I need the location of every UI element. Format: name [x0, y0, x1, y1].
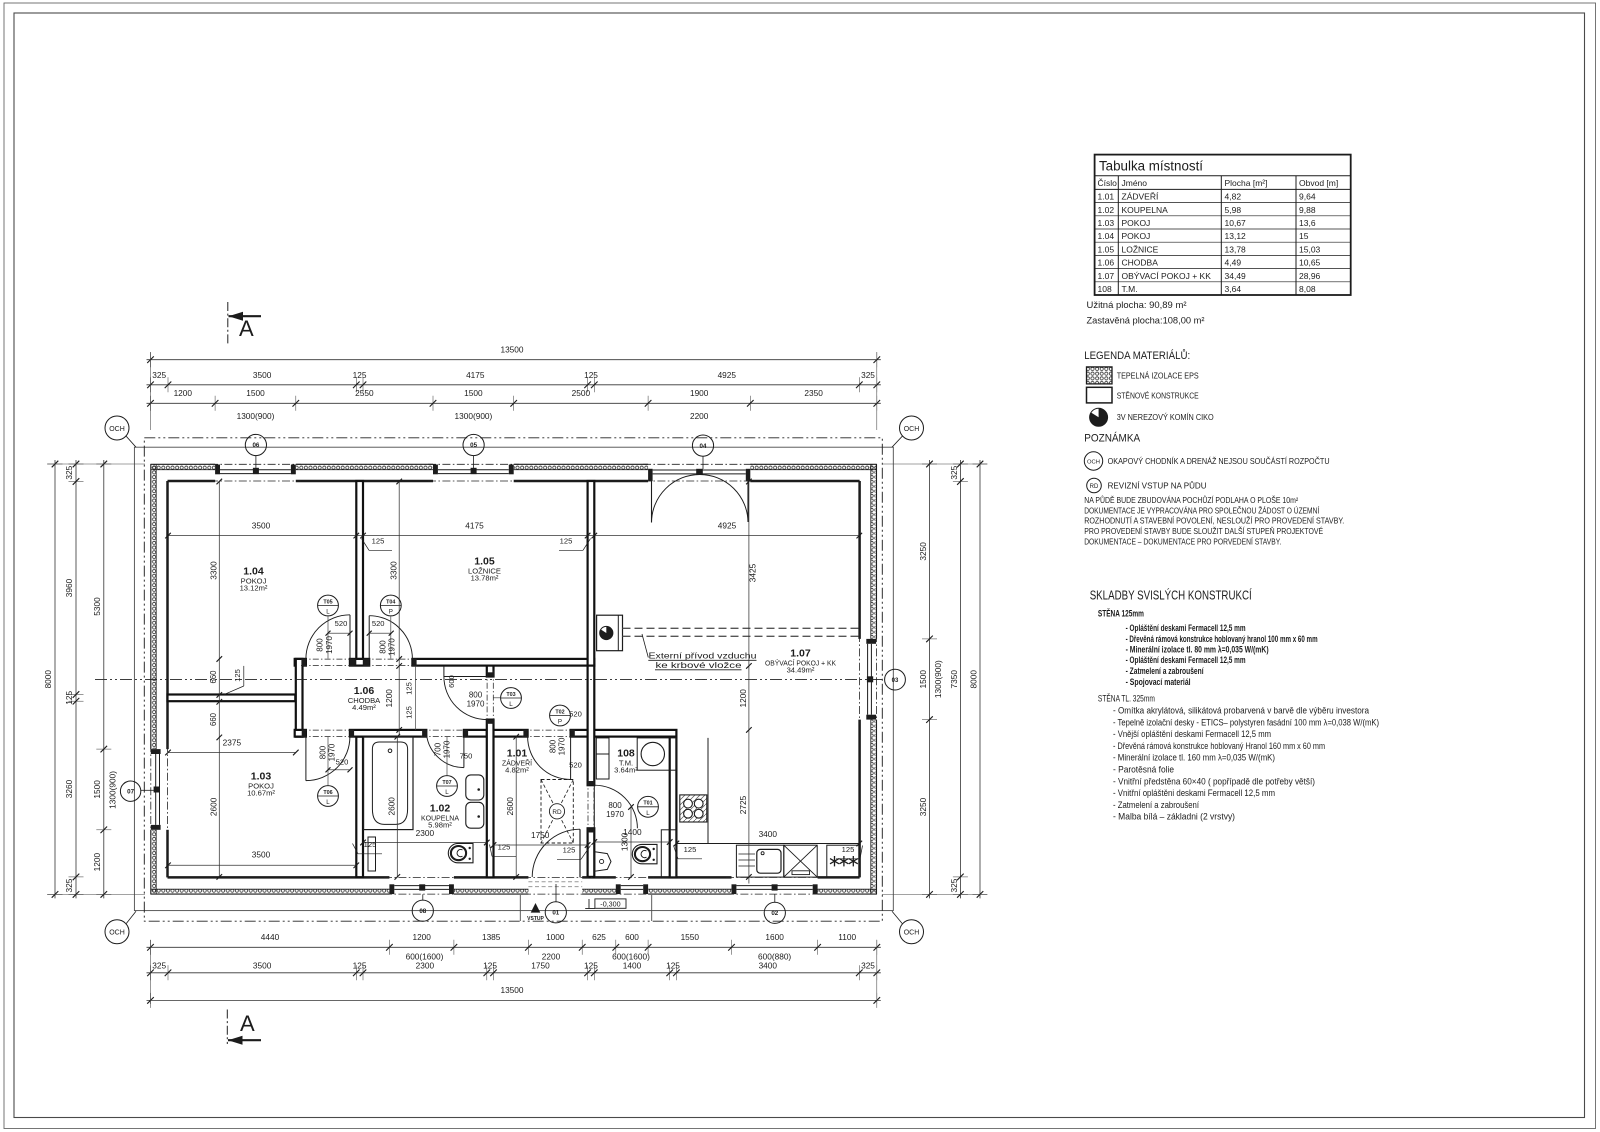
svg-text:- Parotěsná folie: - Parotěsná folie	[1113, 765, 1174, 775]
svg-text:1900: 1900	[690, 388, 709, 398]
svg-text:OBÝVACÍ POKOJ + KK: OBÝVACÍ POKOJ + KK	[1122, 271, 1212, 281]
svg-text:- Dřevěná rámová konstrukce ho: - Dřevěná rámová konstrukce hoblovaný hr…	[1126, 634, 1318, 644]
interior wall corridor bottom between doors	[350, 730, 426, 737]
interior dim 1300 TM vertical	[630, 807, 632, 877]
svg-text:KOUPELNA: KOUPELNA	[1122, 205, 1169, 215]
svg-text:1100: 1100	[838, 932, 856, 942]
OCH circle top-right	[900, 416, 924, 440]
svg-text:STĚNA TL. 325mm: STĚNA TL. 325mm	[1098, 694, 1155, 704]
svg-text:1385: 1385	[482, 932, 501, 942]
interior dim 1750 zadveri	[494, 844, 588, 846]
interior wall V1b between 1.03 and 1.02	[356, 737, 363, 878]
svg-text:1200: 1200	[738, 689, 748, 708]
svg-text:Číslo: Číslo	[1098, 178, 1118, 188]
svg-text:7350: 7350	[949, 670, 959, 689]
svg-text:10.67m²: 10.67m²	[247, 789, 275, 798]
svg-text:2350: 2350	[804, 388, 823, 398]
svg-text:1300: 1300	[619, 832, 629, 851]
svg-text:1200: 1200	[384, 689, 394, 708]
svg-text:- Tepelně izolační desky - ETI: - Tepelně izolační desky - ETICS– polyst…	[1113, 717, 1379, 727]
svg-text:1500: 1500	[246, 388, 265, 398]
svg-text:28,96: 28,96	[1299, 271, 1321, 281]
svg-text:125: 125	[584, 370, 598, 380]
svg-text:800: 800	[378, 640, 387, 654]
svg-text:125: 125	[498, 843, 511, 852]
svg-text:OKAPOVÝ CHODNÍK A DRENÁŽ NEJSO: OKAPOVÝ CHODNÍK A DRENÁŽ NEJSOU SOUČÁSTÍ…	[1108, 456, 1330, 466]
section mark A top	[227, 302, 229, 345]
interior wall V2b zadveri/TM upper part	[588, 666, 595, 786]
dash-dot wall lines across left window	[150, 744, 152, 835]
svg-text:2500: 2500	[572, 388, 591, 398]
svg-text:L: L	[646, 810, 650, 817]
walkway entrance landing edge left	[519, 895, 521, 921]
door zadveri to TM swing arc	[593, 785, 595, 828]
door type circle T01	[638, 796, 659, 817]
svg-text:125: 125	[563, 846, 576, 855]
interior wall corridor left	[296, 659, 303, 737]
interior dim 3400 kitchen (on counter edge)	[674, 841, 680, 847]
axis circle 03 right	[885, 669, 906, 690]
svg-text:DOKUMENTACE JE VYPRACOVÁNA PRO: DOKUMENTACE JE VYPRACOVÁNA PRO SPOLEČNOU…	[1084, 505, 1320, 515]
svg-text:1300(900): 1300(900)	[933, 660, 943, 698]
svg-text:L: L	[445, 789, 449, 796]
left dimension chain 1 (5300/1500/1200)	[103, 460, 105, 898]
svg-text:3400: 3400	[759, 961, 778, 971]
svg-text:325: 325	[152, 370, 166, 380]
svg-text:13.78m²: 13.78m²	[471, 574, 499, 583]
svg-text:1.05: 1.05	[1098, 244, 1115, 254]
svg-text:1970: 1970	[388, 638, 397, 656]
svg-text:VSTUP: VSTUP	[527, 916, 544, 922]
OCH circle bottom-left	[105, 920, 129, 944]
svg-text:3500: 3500	[252, 850, 271, 860]
svg-text:04: 04	[700, 443, 707, 450]
svg-text:- Opláštění deskami Fermacell: - Opláštění deskami Fermacell 12,5 mm	[1126, 623, 1246, 633]
svg-text:10,67: 10,67	[1225, 218, 1247, 228]
svg-text:3300: 3300	[209, 561, 219, 580]
svg-text:1600: 1600	[765, 932, 784, 942]
svg-text:OCH: OCH	[1087, 460, 1100, 466]
svg-text:ZÁDVEŘÍ: ZÁDVEŘÍ	[1122, 192, 1159, 202]
interior wall V2b zadveri/TM lower part	[588, 828, 595, 877]
interior wall corridor bottom left part	[295, 730, 306, 737]
svg-text:3,64: 3,64	[1225, 284, 1242, 294]
bathtub in koupelna	[364, 737, 414, 830]
external air duct label	[642, 634, 648, 658]
svg-text:1500: 1500	[464, 388, 483, 398]
svg-text:L: L	[326, 799, 330, 806]
svg-text:125: 125	[684, 845, 697, 854]
svg-text:RD: RD	[1090, 484, 1099, 490]
toilet koupelna	[448, 843, 473, 862]
svg-text:- Vnitřní opláštěni deskami Fe: - Vnitřní opláštěni deskami Fermacell 12…	[1113, 788, 1275, 798]
note OCH symbol	[1084, 452, 1102, 470]
svg-text:1400: 1400	[623, 961, 642, 971]
svg-text:2600: 2600	[505, 797, 515, 816]
svg-text:13,78: 13,78	[1225, 244, 1247, 254]
axis circle 01 entry	[555, 884, 557, 902]
window W4 in bottom wall (T.M.)	[616, 884, 621, 894]
svg-text:- Opláštění deskami Fermacell: - Opláštění deskami Fermacell 12,5 mm	[1126, 655, 1246, 665]
svg-text:125: 125	[405, 682, 414, 695]
svg-text:3V NEREZOVÝ KOMÍN CIKO: 3V NEREZOVÝ KOMÍN CIKO	[1117, 412, 1214, 422]
svg-text:1.04: 1.04	[1098, 231, 1115, 241]
french door FD in top wall (room 1.07)	[648, 469, 653, 481]
door type circle T03	[501, 688, 522, 709]
svg-text:- Minerální izolace tl. 160 mm: - Minerální izolace tl. 160 mm λ=0,035 W…	[1113, 753, 1275, 763]
svg-text:08: 08	[419, 908, 426, 915]
svg-text:07: 07	[127, 788, 134, 795]
svg-text:ke krbové vložce: ke krbové vložce	[656, 661, 743, 670]
svg-text:1970: 1970	[558, 737, 567, 755]
svg-text:325: 325	[861, 961, 875, 971]
svg-text:SKLADBY SVISLÝCH KONSTRUKCÍ: SKLADBY SVISLÝCH KONSTRUKCÍ	[1090, 588, 1252, 603]
svg-text:A: A	[239, 316, 254, 341]
svg-text:L: L	[509, 701, 513, 708]
svg-text:325: 325	[64, 465, 74, 479]
svg-text:700: 700	[433, 742, 442, 756]
svg-text:2600: 2600	[386, 797, 396, 816]
axis circle 08 with stem	[412, 900, 433, 921]
svg-text:3500: 3500	[253, 961, 272, 971]
svg-text:5,98: 5,98	[1225, 205, 1242, 215]
svg-text:- Spojovací materiál: - Spojovací materiál	[1126, 677, 1191, 687]
interior dim 2600 zadveri vertical	[515, 737, 517, 877]
svg-text:STĚNA 125mm: STĚNA 125mm	[1098, 608, 1144, 619]
door corridor to zadveri swing arc	[570, 737, 572, 780]
chimney block	[597, 615, 623, 651]
kitchen stove with burners	[680, 795, 707, 822]
svg-text:1750: 1750	[531, 830, 550, 840]
svg-text:T03: T03	[506, 692, 515, 698]
left chain corner extension lines	[47, 463, 145, 465]
svg-text:325: 325	[949, 465, 959, 479]
svg-text:P: P	[558, 719, 562, 726]
top dimension chain 2	[147, 384, 881, 386]
svg-text:13,12: 13,12	[1225, 231, 1247, 241]
svg-text:800: 800	[316, 638, 325, 652]
axis circle 05 with stem	[463, 434, 484, 455]
bottom chain corner extension lines	[150, 940, 152, 1004]
top dimension chain 13500	[147, 359, 881, 361]
svg-text:- Zatmelení a zabroušení: - Zatmelení a zabroušení	[1126, 666, 1204, 676]
svg-text:13,6: 13,6	[1299, 218, 1316, 228]
svg-text:660: 660	[209, 670, 218, 684]
svg-text:325: 325	[949, 878, 959, 892]
svg-text:750: 750	[460, 752, 473, 761]
interior wall TM top	[588, 730, 677, 737]
window W3b in bottom wall (koupelna)	[389, 884, 394, 894]
svg-text:Jméno: Jméno	[1122, 178, 1148, 188]
svg-text:108: 108	[1098, 284, 1112, 294]
svg-text:2300: 2300	[416, 828, 435, 838]
svg-text:125: 125	[405, 706, 414, 719]
main horizontal axis dash-dot through plan	[95, 679, 885, 681]
dash-dot wall lines across top openings	[210, 463, 301, 465]
svg-text:2550: 2550	[355, 388, 374, 398]
svg-text:1970: 1970	[443, 740, 452, 758]
interior wall V2 between 1.05 and 1.07	[588, 481, 595, 666]
interior dim 2600 koupelna vertical	[396, 737, 398, 877]
svg-text:8000: 8000	[968, 670, 978, 689]
svg-text:10,65: 10,65	[1299, 258, 1321, 268]
svg-text:2300: 2300	[416, 961, 435, 971]
left dimension chain 3 (8000)	[54, 460, 56, 898]
svg-text:125: 125	[353, 370, 367, 380]
svg-text:1200: 1200	[174, 388, 193, 398]
svg-text:520: 520	[335, 619, 348, 628]
level mark -0,300	[585, 908, 595, 910]
svg-text:3960: 3960	[64, 578, 74, 597]
interior wall TM right	[670, 737, 677, 878]
attic access hatch RD in zadveri	[541, 780, 573, 844]
door type circle T05	[318, 595, 339, 616]
right dimension chain 3 (8000)	[979, 460, 981, 898]
duct box TM corner	[661, 830, 676, 877]
french door leaves and swing arcs	[651, 474, 653, 523]
window W1 in top wall (room 1.04)	[215, 465, 220, 475]
svg-text:03: 03	[892, 678, 899, 684]
svg-text:05: 05	[470, 442, 477, 449]
door type circle T07	[437, 776, 458, 797]
svg-text:1200: 1200	[92, 852, 102, 871]
svg-text:1.07: 1.07	[1098, 271, 1115, 281]
svg-text:1300(900): 1300(900)	[454, 411, 492, 421]
top chain corner extension lines	[150, 352, 152, 430]
interior wall corridor bottom right part	[464, 730, 494, 737]
svg-text:2200: 2200	[690, 411, 709, 421]
svg-text:STĚNOVÉ KONSTRUKCE: STĚNOVÉ KONSTRUKCE	[1117, 391, 1199, 401]
kitchen sink unit	[736, 845, 783, 877]
interior dim line rooms top row 3500/4175/4925	[168, 535, 859, 537]
window W5 in bottom wall (kitchen)	[732, 884, 737, 894]
svg-text:125: 125	[372, 537, 385, 546]
svg-text:Externí přívod vzduchu: Externí přívod vzduchu	[649, 652, 758, 661]
axis circle 06 with stem	[245, 434, 266, 455]
interior wall H1 between 1.04 and 1.03	[168, 695, 296, 702]
svg-text:13500: 13500	[500, 345, 523, 355]
svg-text:5300: 5300	[92, 597, 102, 616]
svg-text:325: 325	[861, 370, 875, 380]
svg-text:125: 125	[584, 961, 598, 971]
wall end caps (black)	[302, 659, 306, 666]
svg-text:- Omítka akrylátová, silikátov: - Omítka akrylátová, silikátová probarve…	[1113, 706, 1369, 716]
svg-text:4175: 4175	[466, 370, 485, 380]
right chain corner extension lines	[882, 463, 987, 465]
interior dim vertical room 1.05 (3300/1200)	[398, 482, 400, 737]
interior dim 1400 TM	[594, 841, 669, 843]
window W2 in top wall (room 1.05)	[433, 465, 438, 475]
svg-text:LEGENDA MATERIÁLŮ:: LEGENDA MATERIÁLŮ:	[1084, 349, 1190, 362]
svg-text:ROZHODNUTÍ A STAVEBNÍ POVOLENÍ: ROZHODNUTÍ A STAVEBNÍ POVOLENÍ, NESLOUŽÍ…	[1084, 516, 1344, 526]
svg-text:06: 06	[252, 442, 259, 449]
interior wall V1 between 1.04 and 1.05	[356, 481, 363, 659]
roof overhang dash-dot outline	[144, 438, 882, 921]
svg-text:520: 520	[336, 758, 349, 767]
walkway outline (okapovy chodnik)	[134, 447, 893, 910]
interior wall corridor top (under 1.05 and rooms)	[295, 659, 306, 666]
svg-text:34.49m²: 34.49m²	[787, 666, 815, 675]
svg-text:4440: 4440	[261, 932, 280, 942]
svg-text:- Vnější opláštění deskami Fer: - Vnější opláštění deskami Fermacell 12,…	[1113, 729, 1271, 739]
dash-dot wall lines across bottom openings	[384, 876, 459, 878]
svg-text:800: 800	[469, 691, 483, 700]
door to 1.03 swing arc	[305, 737, 307, 781]
svg-text:NA PŮDĚ BUDE ZBUDOVÁNA POCHŮZÍ: NA PŮDĚ BUDE ZBUDOVÁNA POCHŮZÍ PODLAHA O…	[1084, 494, 1298, 505]
legend EPS insulation swatch	[1087, 367, 1113, 384]
svg-text:Tabulka místností: Tabulka místností	[1099, 159, 1203, 174]
svg-text:1300(900): 1300(900)	[107, 771, 117, 809]
svg-text:325: 325	[152, 961, 166, 971]
door to 1.05 swing arc	[368, 616, 370, 659]
svg-text:Užitná plocha: 90,89 m²: Užitná plocha: 90,89 m²	[1087, 300, 1187, 310]
outer wall left segments	[150, 464, 152, 749]
svg-text:520: 520	[372, 619, 385, 628]
axis circle 02 with stem	[764, 902, 785, 923]
svg-text:800: 800	[548, 739, 557, 753]
svg-text:02: 02	[771, 910, 778, 917]
svg-text:125: 125	[64, 690, 74, 704]
svg-text:- Vnitřní předstěna 60×40 ( po: - Vnitřní předstěna 60×40 ( popřípadě dl…	[1113, 776, 1315, 786]
svg-text:9,64: 9,64	[1299, 192, 1316, 202]
svg-text:TEPELNÁ IZOLACE EPS: TEPELNÁ IZOLACE EPS	[1117, 371, 1199, 381]
interior dim vertical room 1.04 (3300/660/660/2600)	[218, 482, 220, 877]
svg-text:- Zatmelení a zabroušení: - Zatmelení a zabroušení	[1113, 800, 1199, 810]
svg-text:1.03: 1.03	[1098, 218, 1115, 228]
interior dim vertical living room (3425/1200/2725)	[748, 482, 750, 884]
svg-text:1970: 1970	[325, 636, 334, 654]
svg-text:3400: 3400	[759, 829, 778, 839]
axis circle 04 with stem	[692, 435, 713, 456]
bottom dimension chain 1	[147, 946, 881, 948]
svg-text:OCH: OCH	[109, 426, 125, 433]
fridge freezer with stars	[827, 845, 859, 877]
svg-text:OCH: OCH	[109, 930, 125, 937]
svg-text:2375: 2375	[223, 737, 242, 747]
svg-text:4.49m²: 4.49m²	[352, 703, 376, 712]
external air duct dashed lines	[623, 627, 860, 629]
svg-text:T05: T05	[323, 599, 332, 605]
door to koupelna swing arc	[463, 730, 465, 768]
svg-text:8000: 8000	[43, 670, 53, 689]
svg-text:4,82: 4,82	[1225, 192, 1242, 202]
dash-dot wall lines across right window	[876, 634, 878, 725]
svg-text:1.02: 1.02	[1098, 205, 1115, 215]
svg-text:125: 125	[560, 537, 573, 546]
axis circle 07 with leader	[120, 781, 140, 801]
svg-text:600: 600	[447, 675, 456, 688]
svg-text:4925: 4925	[718, 521, 737, 531]
svg-text:4925: 4925	[718, 370, 737, 380]
OCH circle top-left	[105, 416, 129, 440]
svg-text:3425: 3425	[748, 563, 758, 582]
svg-text:1500: 1500	[92, 780, 102, 799]
note RD symbol	[1087, 478, 1102, 493]
svg-text:3500: 3500	[252, 521, 271, 531]
svg-text:3.64m²: 3.64m²	[614, 766, 638, 775]
svg-text:01: 01	[552, 910, 559, 917]
svg-text:3300: 3300	[388, 561, 398, 580]
svg-text:625: 625	[592, 932, 606, 942]
svg-text:125: 125	[353, 961, 367, 971]
svg-text:4175: 4175	[465, 521, 484, 531]
svg-text:OCH: OCH	[904, 426, 920, 433]
entry door D in bottom wall	[579, 829, 581, 877]
kitchen counter edge	[676, 843, 859, 845]
svg-text:Obvod [m]: Obvod [m]	[1299, 178, 1338, 188]
svg-text:-0,300: -0,300	[600, 899, 620, 908]
section mark A bottom	[226, 1010, 228, 1045]
door type circle T02	[550, 705, 571, 726]
bottom dimension chain 13500	[147, 999, 881, 1001]
toilet TM	[632, 844, 657, 863]
svg-text:800: 800	[608, 801, 622, 810]
svg-text:520: 520	[569, 710, 582, 719]
svg-text:L: L	[326, 609, 330, 616]
svg-text:125: 125	[233, 669, 242, 682]
bottom dimension chain 3	[147, 972, 881, 974]
window W7 in right wall (room 1.07)	[866, 639, 876, 644]
interior wall W3 koupelna/zadveri + corridor/living	[487, 666, 494, 677]
svg-text:125: 125	[364, 840, 377, 849]
svg-text:3250: 3250	[918, 542, 928, 561]
svg-text:125: 125	[666, 961, 680, 971]
svg-text:1550: 1550	[681, 932, 700, 942]
corner sink TM	[595, 852, 611, 871]
svg-text:T07: T07	[442, 780, 451, 786]
towel radiator koupelna	[368, 837, 376, 871]
svg-text:P: P	[389, 609, 393, 616]
svg-text:PRO PROVEDENÍ STAVBY BUDE SLOU: PRO PROVEDENÍ STAVBY BUDE SLOUŽIT DALŠÍ …	[1084, 526, 1323, 536]
interior wall stub left of door to 1.04	[350, 659, 369, 666]
svg-text:2600: 2600	[209, 797, 219, 816]
svg-text:4.82m²: 4.82m²	[505, 766, 529, 775]
svg-text:T.M.: T.M.	[1122, 284, 1138, 294]
svg-text:POKOJ: POKOJ	[1122, 231, 1151, 241]
svg-text:1000: 1000	[546, 932, 565, 942]
svg-text:Plocha [m²]: Plocha [m²]	[1225, 178, 1268, 188]
svg-text:T04: T04	[386, 599, 395, 605]
interior dim 2375 in 1.03	[168, 752, 296, 754]
svg-text:CHODBA: CHODBA	[1122, 258, 1159, 268]
svg-text:8,08: 8,08	[1299, 284, 1316, 294]
svg-text:13.12m²: 13.12m²	[240, 584, 268, 593]
svg-text:520: 520	[569, 761, 582, 770]
top dimension chain 3	[147, 402, 881, 404]
svg-text:34,49: 34,49	[1225, 271, 1247, 281]
svg-text:LOŽNICE: LOŽNICE	[1122, 244, 1159, 254]
svg-text:1300(900): 1300(900)	[237, 411, 275, 421]
svg-text:15: 15	[1299, 231, 1309, 241]
svg-text:800: 800	[318, 745, 327, 759]
svg-text:- Dřevěná rámová konstrukce ho: - Dřevěná rámová konstrukce hoblovaný Hr…	[1113, 741, 1325, 751]
interior wall zadveri top	[487, 730, 528, 737]
svg-text:1200: 1200	[412, 932, 431, 942]
svg-text:13500: 13500	[500, 985, 523, 995]
svg-text:600: 600	[625, 932, 639, 942]
interior dim 2300 koupelna	[363, 842, 487, 844]
legend chimney symbol	[1090, 408, 1108, 426]
svg-text:4,49: 4,49	[1225, 258, 1242, 268]
interior dim 3500 in 1.03	[168, 864, 356, 866]
svg-text:T06: T06	[323, 790, 332, 796]
door to 1.04 swing arc	[349, 615, 351, 659]
svg-text:15,03: 15,03	[1299, 244, 1321, 254]
right dimension chain 2 (325/7350/325)	[959, 460, 961, 898]
left dimension chain 2 (325/3960/125/3260/325)	[75, 460, 77, 898]
dishwasher with X	[784, 845, 817, 877]
svg-text:3250: 3250	[918, 797, 928, 816]
